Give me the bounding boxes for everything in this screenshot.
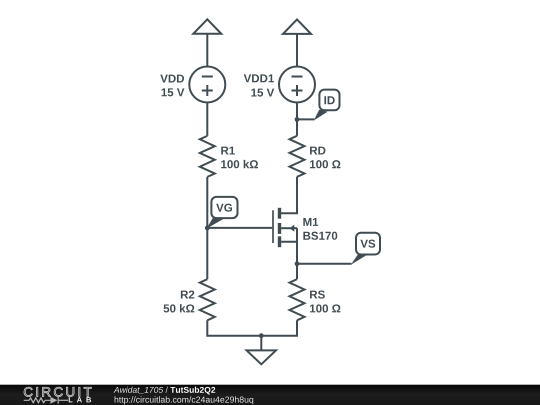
- label VG: [216, 204, 232, 212]
- node ID flag: [314, 90, 340, 121]
- wire: [296, 264, 298, 279]
- junction (ground node): [259, 333, 264, 338]
- label M1 BS170: [303, 218, 318, 226]
- junction (node ID): [295, 117, 300, 122]
- wire: [206, 34, 208, 67]
- resistor R1: [200, 136, 215, 177]
- voltage source VDD1: [279, 67, 315, 103]
- voltage source VDD: [189, 67, 225, 103]
- label RS 100 Ω: [310, 290, 325, 298]
- label VS: [360, 240, 375, 248]
- resistor R2: [200, 279, 215, 320]
- footer text: url: [115, 396, 254, 404]
- label ID: [324, 96, 334, 104]
- wire (drain): [281, 177, 297, 214]
- footer text: title: [114, 387, 254, 405]
- label R1 100 kΩ: [221, 147, 235, 155]
- wire (gate): [207, 227, 272, 229]
- resistor RD: [290, 136, 305, 177]
- wire: [296, 103, 298, 136]
- wire (to VS flag): [297, 263, 352, 265]
- wire (bottom rail): [207, 320, 297, 335]
- node VS flag: [351, 233, 380, 265]
- footer bar: [0, 385, 540, 405]
- transistor M1: [273, 208, 297, 247]
- wire: [206, 103, 208, 136]
- wire: [206, 177, 208, 279]
- label VDD1 15 V: [244, 74, 274, 82]
- node VG flag: [207, 197, 238, 229]
- CircuitLab logo: [24, 387, 92, 404]
- junction (node VG): [205, 226, 210, 231]
- ground: [247, 336, 276, 365]
- wire: [296, 34, 298, 67]
- label RD 100 Ω: [310, 147, 325, 155]
- wire (body to source): [296, 228, 298, 242]
- wire (source): [281, 242, 297, 264]
- wire (to ID flag): [297, 118, 314, 120]
- label VDD 15 V: [160, 75, 184, 83]
- resistor RS: [290, 279, 305, 320]
- power flag VDD (up arrow): [193, 19, 221, 34]
- label R2 50 kΩ: [181, 290, 194, 298]
- power flag VDD1 (up arrow): [283, 19, 311, 34]
- junction (node VS): [295, 261, 300, 266]
